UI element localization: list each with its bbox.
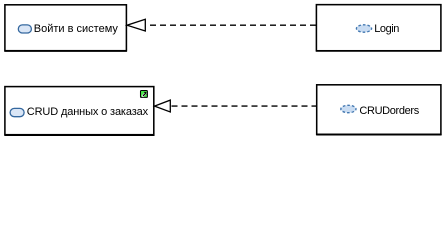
svg-text:CRUD данных о заказах: CRUD данных о заказах [27, 106, 149, 118]
realization connector 1: dashed wire [150, 24, 316, 26]
realization connector 1: hollow triangle arrowhead [127, 19, 145, 31]
green link decorator icon [141, 91, 148, 98]
dashed ellipse icon in box "CRUDorders" [341, 105, 356, 112]
collaboration box "Login" [316, 5, 442, 51]
realization connector 2: hollow triangle arrowhead [155, 100, 171, 112]
svg-text:Войти в систему: Войти в систему [34, 23, 119, 35]
realization connector 2: dashed wire [172, 105, 317, 107]
use-case box "CRUD данных о заказах" [4, 87, 154, 136]
use-case ellipse icon (solid) in box 3 [10, 108, 24, 116]
dashed ellipse icon in box "Login" [356, 25, 371, 32]
svg-text:CRUDorders: CRUDorders [359, 105, 419, 117]
svg-text:Login: Login [374, 23, 399, 35]
use-case ellipse icon (solid) in box 1 [18, 25, 31, 33]
use-case box "Войти в систему" [4, 5, 127, 51]
collaboration box "CRUDorders" [316, 85, 441, 135]
